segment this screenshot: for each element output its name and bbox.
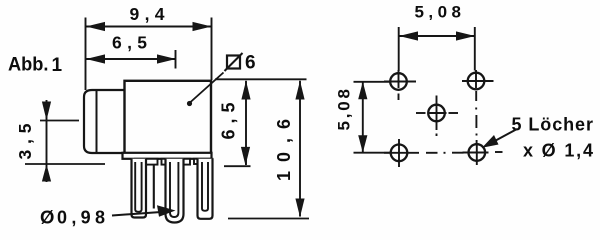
shoulder tab right <box>194 159 213 164</box>
leader dot on body <box>187 101 192 106</box>
extension line left (front of barrel) <box>85 18 87 91</box>
dash-dot line top-right to bottom-right <box>475 91 477 101</box>
extension line barrel axis <box>40 120 79 122</box>
extension line left top <box>354 81 391 83</box>
extension line top-right hole <box>474 27 476 71</box>
left dim top arrow <box>358 82 367 100</box>
svg-text:6: 6 <box>245 53 256 74</box>
svg-text:6,5: 6,5 <box>219 103 239 140</box>
hole center cross <box>428 112 447 114</box>
extension line top-left hole <box>398 27 400 71</box>
dimension 9,4 left arrow <box>86 22 105 31</box>
extension line left bottom <box>354 152 391 154</box>
dimension 10,6 top arrow <box>295 81 304 100</box>
extension line body top right <box>215 78 307 80</box>
svg-text:5,08: 5,08 <box>415 2 462 21</box>
leader line to bottom-right hole <box>492 129 517 143</box>
extension line right (body right) <box>211 18 213 81</box>
right leg slot <box>202 162 208 211</box>
top dim left arrow <box>399 31 418 40</box>
dimension 6,5 vertical line <box>245 81 247 165</box>
dimension 5,08 left line <box>362 82 364 153</box>
hole top-left cross <box>384 81 416 83</box>
center pin slot <box>170 162 178 217</box>
hole bottom-right <box>469 144 486 161</box>
hole center <box>428 105 445 122</box>
dimension 6,5 right arrow <box>157 54 176 63</box>
dimension 9,4 line <box>86 26 211 28</box>
left leg <box>132 159 147 218</box>
hole bottom-left <box>391 145 408 162</box>
hole top-left center dash below <box>398 94 400 101</box>
left dim bottom arrow <box>358 135 367 152</box>
dimension 6,5 vertical top arrow <box>241 81 250 100</box>
barrel (coax front) <box>84 90 125 153</box>
dimension 6,5 vertical bottom arrow <box>241 147 250 166</box>
svg-text:1: 1 <box>52 55 63 76</box>
inner edge line right of left leg <box>153 166 155 209</box>
left leg slot <box>135 162 141 212</box>
svg-text:0,98: 0,98 <box>57 208 105 228</box>
svg-text:Ø: Ø <box>40 207 54 228</box>
dimension 6,5 left arrow <box>86 54 105 63</box>
extension line leg bottom <box>228 218 309 220</box>
top dim right arrow <box>456 31 475 40</box>
svg-text:Abb.: Abb. <box>8 54 49 76</box>
svg-text:9,4: 9,4 <box>130 4 165 24</box>
hole top-left <box>390 73 407 90</box>
dimension 3,5 line <box>46 100 48 182</box>
square symbol of label square-6 <box>227 56 240 69</box>
flange (pcb mount base) <box>123 153 212 159</box>
leader line to body face <box>190 73 224 103</box>
dimension 6,5 horizontal line <box>86 58 176 60</box>
hole bottom-right cross <box>463 152 489 154</box>
dimension 10,6 bottom arrow <box>295 199 304 218</box>
svg-text:6,5: 6,5 <box>112 33 147 53</box>
leader arrow to pin <box>157 205 176 217</box>
center pin (contact) <box>166 159 184 223</box>
dash-dot line bottom-left to bottom-right <box>426 152 438 154</box>
shoulder tab center <box>162 159 191 165</box>
barrel step line <box>96 90 98 153</box>
dimension 5,08 top line <box>399 35 475 37</box>
hole top-right <box>468 73 485 90</box>
extension line pcb surface <box>25 163 105 165</box>
center hole horizontal dashes <box>416 112 426 114</box>
center hole vertical dot below <box>436 134 438 137</box>
dash right of bottom-right hole <box>495 151 503 153</box>
right leg <box>198 159 213 219</box>
svg-text:3,5: 3,5 <box>15 123 35 159</box>
extension line pin axis <box>175 50 177 69</box>
hole bottom-left cross <box>384 152 419 154</box>
hole top-right cross <box>462 80 494 82</box>
dimension 3,5 bottom arrow (outside, pointing up) <box>42 164 51 181</box>
leader arrow to hole <box>482 135 499 148</box>
shoulder tab left <box>135 159 158 165</box>
dimension 10,6 line <box>299 81 301 217</box>
svg-text:5 Löcher: 5 Löcher <box>512 114 594 134</box>
body (6mm square housing) <box>125 81 212 154</box>
dimension 3,5 top arrow (outside, pointing down) <box>42 102 51 121</box>
slash of square symbol <box>225 53 243 71</box>
svg-text:5,08: 5,08 <box>335 89 354 131</box>
leader line to pin <box>112 212 168 216</box>
dimension 9,4 right arrow <box>193 22 212 31</box>
extension line body bottom right <box>224 165 251 167</box>
